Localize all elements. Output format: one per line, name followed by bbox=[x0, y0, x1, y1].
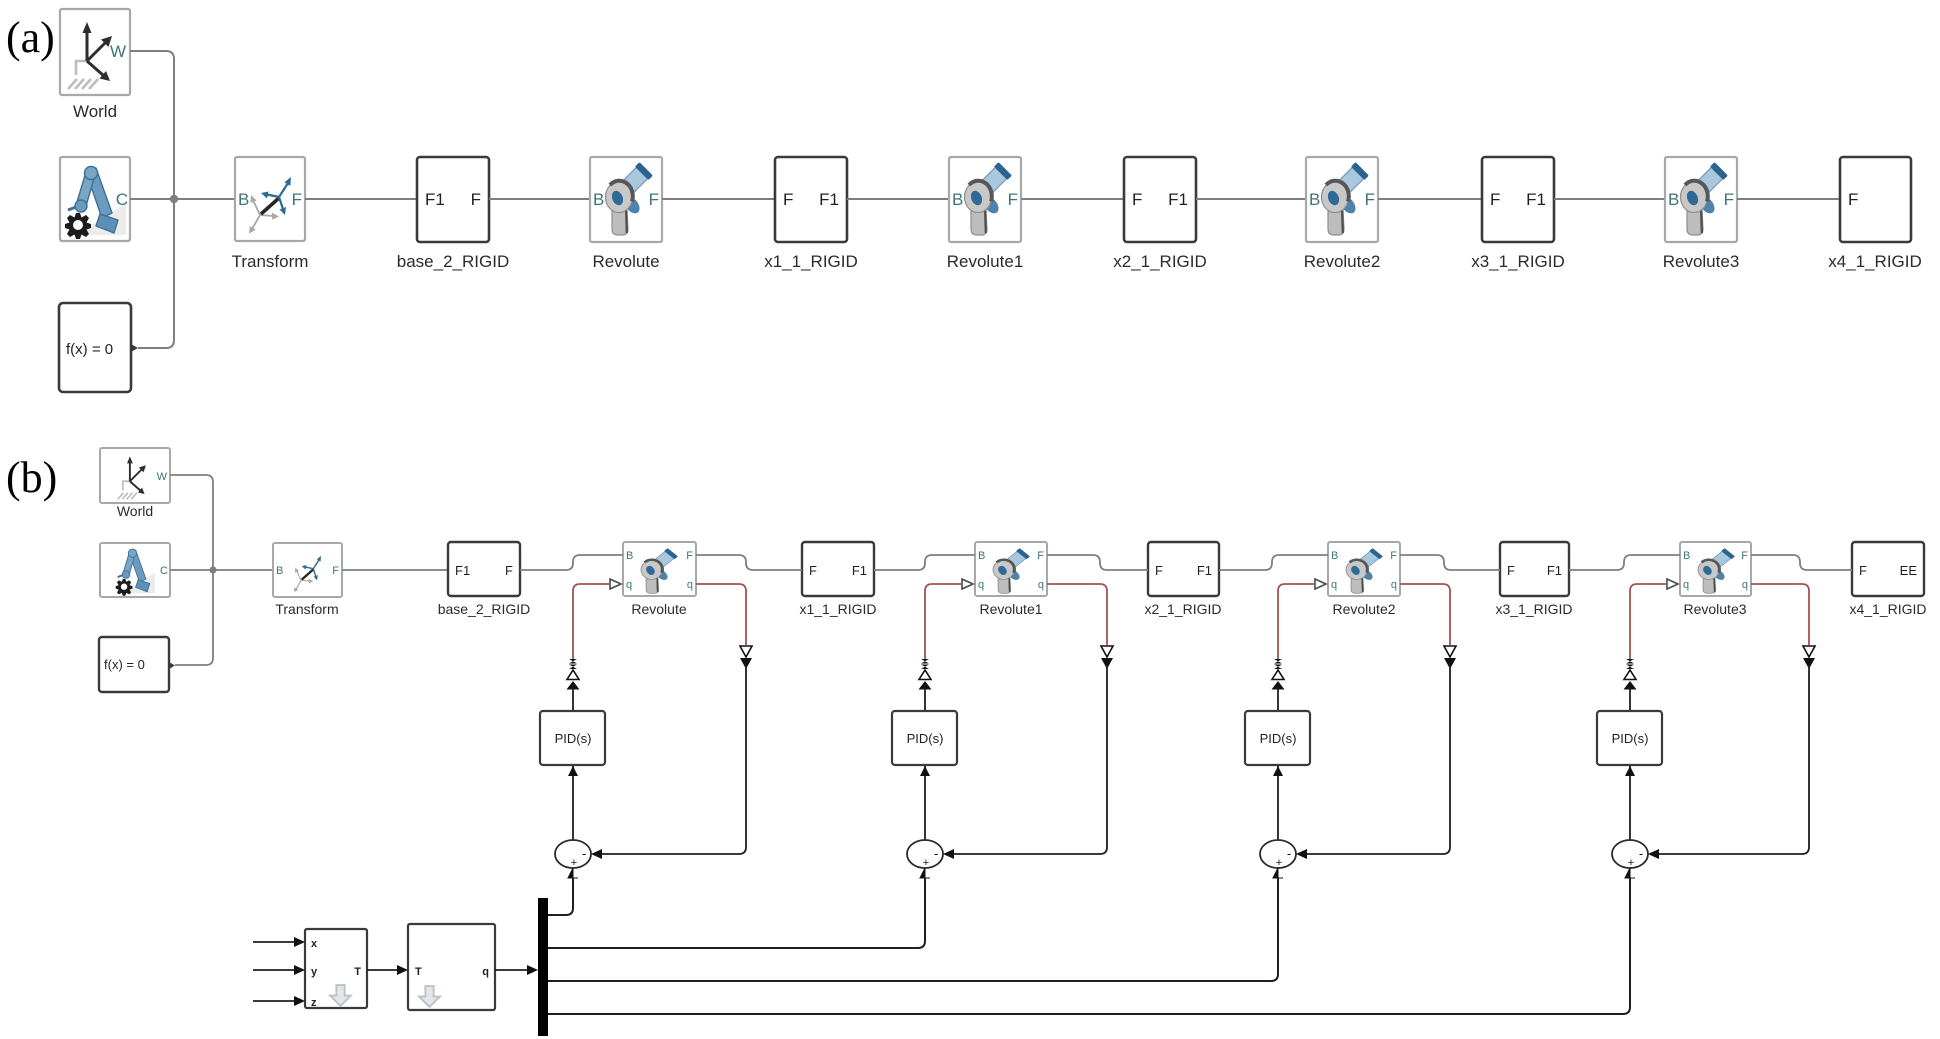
svg-text:F1: F1 bbox=[819, 190, 839, 209]
sum block bbox=[555, 840, 591, 868]
physical signal wire Revolute q output down bbox=[1400, 584, 1450, 645]
svg-text:F: F bbox=[649, 190, 659, 209]
sum block bbox=[907, 840, 943, 868]
svg-text:F1: F1 bbox=[1547, 563, 1562, 578]
svg-text:B: B bbox=[1683, 550, 1690, 562]
svg-text:B: B bbox=[1309, 190, 1320, 209]
svg-text:W: W bbox=[157, 471, 168, 483]
block PID(s) bbox=[892, 711, 957, 765]
block x1_1_RIGID (b) bbox=[799, 542, 876, 617]
wire f(x)=0 to vertical bus (b) bbox=[175, 577, 213, 665]
svg-text:F: F bbox=[1155, 563, 1163, 578]
Mux bar bbox=[538, 898, 548, 1036]
svg-text:F: F bbox=[505, 563, 513, 578]
svg-text:y: y bbox=[311, 966, 318, 978]
wire Mux output bbox=[548, 878, 1630, 1014]
svg-text:x: x bbox=[311, 938, 318, 950]
block Transform (a) bbox=[232, 157, 309, 271]
physical signal wire PID to Revolute q input bbox=[925, 584, 961, 659]
sum block bbox=[1612, 840, 1648, 868]
block x3_1_RIGID (b) bbox=[1495, 542, 1572, 617]
wire to Revolute3 (a) bbox=[1554, 198, 1665, 200]
svg-text:q: q bbox=[1391, 579, 1397, 591]
wire to x3_1_RIGID (a) bbox=[1378, 198, 1482, 200]
svg-text:B: B bbox=[626, 550, 633, 562]
wire Mechanism C to Transform B (a) bbox=[130, 198, 235, 200]
svg-text:base_2_RIGID: base_2_RIGID bbox=[438, 601, 531, 617]
junction node (b) bbox=[209, 566, 216, 573]
wire Mux output bbox=[548, 878, 1278, 981]
svg-text:x4_1_RIGID: x4_1_RIGID bbox=[1828, 252, 1922, 271]
wire segment (b chain) bbox=[1751, 555, 1852, 570]
input arrow wire into xyz block at y=970 bbox=[253, 969, 295, 971]
block x1_1_RIGID (a) bbox=[764, 157, 858, 271]
svg-text:F: F bbox=[1741, 550, 1748, 562]
signal converter marks bbox=[1274, 659, 1282, 669]
open arrow at q input port bbox=[1667, 579, 1678, 589]
svg-text:B: B bbox=[952, 190, 963, 209]
svg-text:B: B bbox=[978, 550, 985, 562]
svg-text:F: F bbox=[1490, 190, 1500, 209]
block Mechanism Configuration (a) bbox=[60, 157, 130, 241]
svg-text:F: F bbox=[1037, 550, 1044, 562]
svg-text:q: q bbox=[482, 966, 489, 978]
svg-text:B: B bbox=[593, 190, 604, 209]
svg-text:q: q bbox=[1038, 579, 1044, 591]
svg-text:F: F bbox=[686, 550, 693, 562]
block Revolute2 (b) bbox=[1328, 542, 1400, 617]
signal converter marks bbox=[569, 659, 577, 669]
svg-text:-: - bbox=[934, 846, 938, 861]
junction node (a) bbox=[170, 195, 178, 203]
svg-text:World: World bbox=[73, 102, 117, 121]
wire to Revolute2 (a) bbox=[1196, 198, 1306, 200]
svg-text:F: F bbox=[1390, 550, 1397, 562]
wire to x1_1_RIGID (a) bbox=[662, 198, 775, 200]
svg-text:x2_1_RIGID: x2_1_RIGID bbox=[1113, 252, 1207, 271]
block Solver f(x)=0 (a) bbox=[59, 303, 138, 392]
wire Sum to PID bbox=[572, 766, 574, 840]
svg-text:F: F bbox=[1507, 563, 1515, 578]
block Revolute (a) bbox=[590, 157, 662, 271]
svg-text:x3_1_RIGID: x3_1_RIGID bbox=[1471, 252, 1565, 271]
svg-text:x4_1_RIGID: x4_1_RIGID bbox=[1849, 601, 1926, 617]
svg-text:(b): (b) bbox=[6, 453, 57, 502]
wire segment (b chain) bbox=[520, 555, 623, 570]
signal converter marks bbox=[921, 659, 929, 669]
svg-text:PID(s): PID(s) bbox=[907, 731, 944, 746]
svg-text:Transform: Transform bbox=[275, 601, 338, 617]
svg-text:+: + bbox=[1628, 857, 1634, 869]
wire segment (b chain) bbox=[1047, 555, 1148, 570]
block x4_1_RIGID (a) bbox=[1828, 157, 1922, 271]
sum block bbox=[1260, 840, 1296, 868]
svg-text:-: - bbox=[1287, 846, 1291, 861]
block Solver f(x)=0 (b) bbox=[99, 637, 175, 692]
wire xyz T to T block bbox=[367, 969, 397, 971]
svg-text:Transform: Transform bbox=[232, 252, 309, 271]
block Mechanism Configuration (b) bbox=[100, 543, 170, 597]
block x3_1_RIGID (a) bbox=[1471, 157, 1565, 271]
svg-text:f(x) = 0: f(x) = 0 bbox=[104, 657, 145, 672]
wire Mechanism C to Transform B (b) bbox=[170, 563, 273, 577]
wire Transform F to base_2_RIGID F1 (b) bbox=[342, 569, 448, 571]
physical signal wire Revolute q output down bbox=[1751, 584, 1809, 645]
block base_2_RIGID (a) bbox=[397, 157, 509, 271]
block base_2_RIGID (b) bbox=[438, 542, 531, 617]
svg-text:Revolute2: Revolute2 bbox=[1304, 252, 1381, 271]
svg-text:F1: F1 bbox=[425, 190, 445, 209]
wire segment (b chain) bbox=[696, 555, 802, 570]
svg-text:Revolute1: Revolute1 bbox=[979, 601, 1042, 617]
svg-text:PID(s): PID(s) bbox=[555, 731, 592, 746]
svg-text:base_2_RIGID: base_2_RIGID bbox=[397, 252, 509, 271]
svg-text:World: World bbox=[117, 503, 153, 519]
svg-text:q: q bbox=[626, 579, 632, 591]
wire World W to vertical bus (a) bbox=[130, 51, 174, 191]
svg-text:q: q bbox=[1683, 579, 1689, 591]
wire segment (b chain) bbox=[1219, 555, 1328, 570]
svg-text:F1: F1 bbox=[852, 563, 867, 578]
block Revolute1 (b) bbox=[975, 542, 1047, 617]
svg-text:x2_1_RIGID: x2_1_RIGID bbox=[1144, 601, 1221, 617]
block x4_1_RIGID (b) bbox=[1849, 542, 1926, 617]
svg-text:F1: F1 bbox=[1168, 190, 1188, 209]
wire Mux to Sum bottom bbox=[920, 868, 930, 878]
wire segment (b chain) bbox=[1400, 555, 1500, 570]
svg-text:F: F bbox=[1859, 563, 1867, 578]
svg-text:B: B bbox=[1668, 190, 1679, 209]
svg-text:F: F bbox=[471, 190, 481, 209]
block Revolute3 (b) bbox=[1680, 542, 1751, 617]
svg-text:q: q bbox=[978, 579, 984, 591]
block World (b) bbox=[100, 448, 170, 519]
svg-text:z: z bbox=[311, 997, 317, 1009]
svg-text:-: - bbox=[1639, 846, 1643, 861]
wire Mux to Sum bottom bbox=[1273, 868, 1283, 878]
svg-text:F1: F1 bbox=[455, 563, 470, 578]
svg-text:F: F bbox=[1365, 190, 1375, 209]
svg-text:F1: F1 bbox=[1197, 563, 1212, 578]
physical signal wire Revolute q output down bbox=[696, 584, 746, 645]
block Revolute2 (a) bbox=[1304, 157, 1381, 271]
wire q feedback to Sum bbox=[1650, 665, 1809, 854]
svg-text:+: + bbox=[923, 857, 929, 869]
wire to x2_1_RIGID (a) bbox=[1021, 198, 1124, 200]
svg-text:F: F bbox=[292, 190, 302, 209]
svg-text:B: B bbox=[1331, 550, 1338, 562]
open arrow at q input port bbox=[610, 579, 621, 589]
wire to x4_1_RIGID (a) bbox=[1737, 198, 1840, 200]
wire Sum to PID bbox=[924, 766, 926, 840]
wire q feedback to Sum bbox=[1298, 665, 1450, 854]
wire World W to vertical bus (b) bbox=[170, 475, 213, 563]
svg-text:T: T bbox=[415, 966, 422, 978]
open arrow at q input port bbox=[962, 579, 973, 589]
svg-text:F: F bbox=[1008, 190, 1018, 209]
input arrow wire into xyz block at y=1001 bbox=[253, 1000, 295, 1002]
physical signal wire PID to Revolute q input bbox=[1630, 584, 1666, 659]
svg-text:Revolute3: Revolute3 bbox=[1683, 601, 1746, 617]
block Revolute (b) bbox=[623, 542, 696, 617]
svg-text:PID(s): PID(s) bbox=[1612, 731, 1649, 746]
svg-text:F: F bbox=[783, 190, 793, 209]
wire Sum to PID bbox=[1629, 766, 1631, 840]
svg-text:B: B bbox=[238, 190, 249, 209]
svg-text:W: W bbox=[110, 42, 126, 61]
wire segment (b chain) bbox=[874, 555, 975, 570]
wire q feedback to Sum bbox=[593, 665, 746, 854]
svg-text:+: + bbox=[571, 857, 577, 869]
svg-text:Revolute2: Revolute2 bbox=[1332, 601, 1395, 617]
block x2_1_RIGID (b) bbox=[1144, 542, 1221, 617]
svg-text:q: q bbox=[1331, 579, 1337, 591]
svg-text:F: F bbox=[332, 565, 339, 577]
svg-text:F: F bbox=[1724, 190, 1734, 209]
signal converter marks bbox=[1626, 659, 1634, 669]
input arrow wire into xyz block at y=942 bbox=[253, 941, 295, 943]
svg-text:q: q bbox=[687, 579, 693, 591]
wire q feedback to Sum bbox=[945, 665, 1107, 854]
svg-text:PID(s): PID(s) bbox=[1260, 731, 1297, 746]
wire to base_2_RIGID (a) bbox=[305, 198, 417, 200]
svg-text:-: - bbox=[582, 846, 586, 861]
wire Sum to PID bbox=[1277, 766, 1279, 840]
wire to Revolute1 (a) bbox=[847, 198, 949, 200]
block Revolute3 (a) bbox=[1663, 157, 1740, 271]
wire Mux output bbox=[548, 878, 573, 915]
block T to q trajectory bbox=[408, 924, 495, 1010]
svg-text:q: q bbox=[1742, 579, 1748, 591]
svg-text:Revolute: Revolute bbox=[631, 601, 686, 617]
wire segment (b chain) bbox=[1569, 555, 1680, 570]
wire Mux to Sum bottom bbox=[568, 868, 578, 878]
svg-text:C: C bbox=[116, 190, 128, 209]
wire Mux output bbox=[548, 878, 925, 948]
svg-text:T: T bbox=[354, 966, 361, 978]
block PID(s) bbox=[1597, 711, 1662, 765]
svg-text:x1_1_RIGID: x1_1_RIGID bbox=[764, 252, 858, 271]
svg-text:x1_1_RIGID: x1_1_RIGID bbox=[799, 601, 876, 617]
svg-text:F1: F1 bbox=[1526, 190, 1546, 209]
svg-text:x3_1_RIGID: x3_1_RIGID bbox=[1495, 601, 1572, 617]
physical signal wire PID to Revolute q input bbox=[573, 584, 609, 659]
svg-text:B: B bbox=[276, 565, 283, 577]
svg-text:Revolute3: Revolute3 bbox=[1663, 252, 1740, 271]
open arrow at q input port bbox=[1315, 579, 1326, 589]
wire f(x)=0 to vertical bus (a) bbox=[138, 207, 174, 348]
physical signal wire Revolute q output down bbox=[1047, 584, 1107, 645]
block PID(s) bbox=[540, 711, 605, 765]
svg-text:F: F bbox=[1848, 190, 1858, 209]
wire T q to Mux bbox=[495, 969, 527, 971]
svg-text:Revolute1: Revolute1 bbox=[947, 252, 1024, 271]
block x2_1_RIGID (a) bbox=[1113, 157, 1207, 271]
block Transform (b) bbox=[273, 543, 342, 617]
wire Mux to Sum bottom bbox=[1625, 868, 1635, 878]
block xyz to T bbox=[305, 929, 367, 1009]
svg-text:(a): (a) bbox=[6, 13, 55, 62]
svg-text:F: F bbox=[1132, 190, 1142, 209]
svg-text:EE: EE bbox=[1900, 563, 1918, 578]
wire to Revolute (a) bbox=[489, 198, 590, 200]
block PID(s) bbox=[1245, 711, 1310, 765]
svg-text:Revolute: Revolute bbox=[592, 252, 659, 271]
block World (a) bbox=[60, 9, 130, 121]
block Revolute1 (a) bbox=[947, 157, 1024, 271]
svg-text:C: C bbox=[160, 565, 168, 577]
svg-text:f(x) = 0: f(x) = 0 bbox=[66, 341, 113, 358]
svg-text:+: + bbox=[1276, 857, 1282, 869]
svg-text:F: F bbox=[809, 563, 817, 578]
physical signal wire PID to Revolute q input bbox=[1278, 584, 1314, 659]
